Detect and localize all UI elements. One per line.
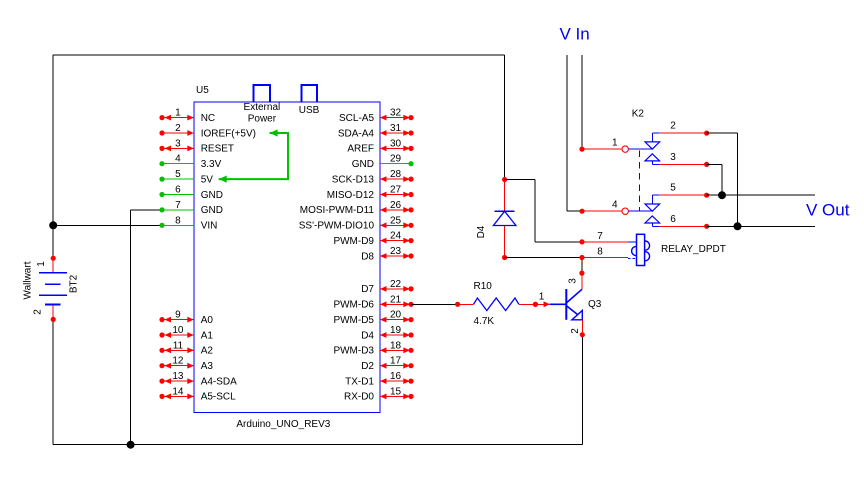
svg-text:K2: K2	[632, 109, 645, 120]
svg-text:16: 16	[390, 371, 402, 382]
node junction VIN/battery	[49, 221, 57, 229]
svg-text:3: 3	[670, 152, 676, 163]
wire relay pin 5 V Out upper rail	[707, 194, 815, 196]
svg-text:A1: A1	[201, 330, 214, 341]
U5 pin 18 PWM-D3	[380, 349, 411, 351]
svg-text:A3: A3	[201, 361, 214, 372]
svg-text:RESET: RESET	[201, 144, 234, 155]
U5 pin 17 D2	[380, 365, 411, 367]
U5 pin 30 AREF	[380, 147, 411, 149]
svg-text:1: 1	[612, 138, 618, 149]
wire diode top to relay coil pin 7	[505, 179, 535, 181]
svg-text:D4: D4	[361, 330, 374, 341]
svg-text:TX-D1: TX-D1	[345, 376, 374, 387]
svg-text:2: 2	[570, 328, 581, 334]
svg-text:3.3V: 3.3V	[201, 159, 222, 170]
svg-text:AREF: AREF	[347, 144, 374, 155]
svg-text:D8: D8	[361, 251, 374, 262]
svg-text:A5-SCL: A5-SCL	[201, 392, 236, 403]
svg-text:7: 7	[597, 231, 603, 242]
svg-text:A0: A0	[201, 315, 214, 326]
relay K2 mechanical link (dashed)	[638, 151, 640, 212]
U5 pin 15 RX-D0	[380, 395, 411, 397]
U5 pin 9 A0	[162, 319, 194, 321]
svg-text:14: 14	[172, 386, 184, 397]
U5 pin 12 A3	[162, 365, 194, 367]
resistor R10 4.7K	[455, 302, 460, 307]
svg-text:SDA-A4: SDA-A4	[338, 128, 375, 139]
svg-text:29: 29	[390, 154, 402, 165]
svg-text:BT2: BT2	[69, 274, 80, 293]
svg-text:4.7K: 4.7K	[474, 316, 495, 327]
node diode bottom junction	[502, 255, 507, 260]
wire GND pin7 down to bottom wire	[131, 209, 162, 211]
relay K2 coil	[640, 241, 649, 250]
U5 pin 29 GND	[380, 163, 411, 165]
svg-text:25: 25	[390, 215, 402, 226]
svg-text:External: External	[244, 102, 281, 113]
svg-text:1: 1	[175, 108, 181, 119]
U5 pin 23 D8	[380, 255, 411, 257]
U5 pin 5 5V	[162, 178, 194, 180]
svg-text:17: 17	[390, 356, 402, 367]
svg-text:4: 4	[612, 200, 618, 211]
svg-text:Wallwart: Wallwart	[23, 261, 34, 299]
U5 pin 2 IOREF(+5V)	[162, 132, 194, 134]
svg-text:VIN: VIN	[201, 221, 218, 232]
U5 pin 28 SCK-D13	[380, 178, 411, 180]
svg-text:SCK-D13: SCK-D13	[332, 174, 375, 185]
wire battery bottom to bottom-left corner	[52, 319, 54, 444]
wire V In left (to relay pin 4)	[566, 55, 568, 211]
svg-text:7: 7	[175, 200, 181, 211]
svg-text:Power: Power	[248, 114, 277, 125]
svg-text:19: 19	[390, 325, 402, 336]
svg-text:26: 26	[390, 200, 402, 211]
wire relay pin 2 to V Out lower rail	[707, 132, 738, 134]
svg-text:2: 2	[670, 121, 676, 132]
Q3 pin 1 base stub	[533, 302, 538, 307]
svg-text:23: 23	[390, 246, 402, 257]
U5 pin 1 NC	[162, 117, 194, 119]
svg-text:4: 4	[175, 154, 181, 165]
svg-text:V Out: V Out	[806, 201, 850, 220]
svg-text:RX-D0: RX-D0	[344, 392, 374, 403]
node junction pin2 wire / pin6 rail	[734, 222, 742, 230]
U5 pin 11 A2	[162, 349, 194, 351]
U5 pin 3 RESET	[162, 147, 194, 149]
svg-text:GND: GND	[201, 205, 223, 216]
svg-text:RELAY_DPDT: RELAY_DPDT	[661, 244, 726, 255]
svg-text:MOSI-PWM-D11: MOSI-PWM-D11	[300, 205, 375, 216]
wire emitter vertical up from bottom wire	[581, 335, 583, 445]
svg-text:GND: GND	[352, 159, 374, 170]
svg-text:10: 10	[172, 325, 184, 336]
U5 pin 31 SDA-A4	[380, 132, 411, 134]
wire coil pin8 node down to Q3 collector	[581, 258, 583, 274]
wire top-right vertical down to diode D4	[504, 55, 506, 179]
svg-text:5: 5	[175, 169, 181, 180]
svg-text:1: 1	[36, 261, 47, 267]
Q3 pin 3 collector stub	[581, 273, 583, 289]
svg-text:D7: D7	[361, 284, 374, 295]
U5 pin 6 GND	[162, 194, 194, 196]
svg-text:11: 11	[173, 340, 184, 351]
relay K2 pole 2 arm	[628, 210, 652, 212]
wire U5 pin 21 PWM-D6 to R10	[411, 303, 458, 305]
wire bottom horizontal	[53, 444, 582, 446]
wire top horizontal	[53, 54, 504, 56]
svg-text:27: 27	[390, 185, 402, 196]
svg-text:2: 2	[175, 123, 181, 134]
svg-text:30: 30	[390, 138, 402, 149]
svg-text:PWM-D3: PWM-D3	[333, 346, 374, 357]
svg-text:MISO-D12: MISO-D12	[327, 190, 375, 201]
U5 pin 16 TX-D1	[380, 380, 411, 382]
svg-text:NC: NC	[201, 113, 215, 124]
svg-text:8: 8	[597, 247, 603, 258]
U5 pin 10 A1	[162, 334, 194, 336]
svg-text:A2: A2	[201, 346, 214, 357]
wire relay pin 3 to V Out upper rail	[707, 163, 722, 165]
svg-text:31: 31	[390, 123, 402, 134]
svg-text:Q3: Q3	[588, 299, 602, 310]
wire left vertical (battery top to top-left corner)	[52, 55, 54, 258]
relay K2 contact to pin 5	[645, 204, 660, 211]
svg-text:28: 28	[390, 169, 402, 180]
svg-text:U5: U5	[196, 85, 209, 96]
transistor Q3	[565, 289, 567, 320]
svg-text:20: 20	[390, 310, 402, 321]
svg-text:18: 18	[390, 340, 402, 351]
svg-text:Arduino_UNO_REV3: Arduino_UNO_REV3	[236, 419, 330, 430]
battery BT2 (Wallwart)	[52, 258, 54, 272]
svg-text:8: 8	[175, 215, 181, 226]
svg-text:1: 1	[539, 292, 545, 303]
wire green IOREF(+5V) to 5V inside U5	[219, 133, 288, 179]
relay K2 pin 5 stub	[659, 194, 707, 196]
svg-text:D4: D4	[476, 225, 487, 238]
svg-text:3: 3	[568, 278, 579, 284]
svg-text:V In: V In	[560, 24, 590, 43]
relay K2 contact to pin 3	[645, 154, 660, 161]
wire diode bottom to relay coil pin 8	[505, 257, 582, 259]
op-amp U5 Arduino_UNO_REV3 body	[194, 102, 380, 412]
U5 pin 8 VIN	[162, 224, 194, 226]
node junction pin3 wire / pin5 rail	[718, 191, 726, 199]
svg-text:9: 9	[175, 310, 181, 321]
svg-text:6: 6	[175, 185, 181, 196]
svg-text:5: 5	[670, 183, 676, 194]
svg-text:USB: USB	[299, 105, 320, 116]
svg-text:3: 3	[175, 138, 181, 149]
relay K2 pin 1 (pole 1)	[579, 147, 584, 152]
relay K2 pin 4 (pole 2)	[579, 209, 584, 214]
svg-text:IOREF(+5V): IOREF(+5V)	[201, 128, 256, 139]
svg-text:PWM-D6: PWM-D6	[333, 300, 374, 311]
svg-text:R10: R10	[474, 281, 493, 292]
svg-text:32: 32	[390, 108, 402, 119]
U5 pin 4 3.3V	[162, 163, 194, 165]
relay K2 pin 6 stub	[659, 225, 707, 227]
svg-text:15: 15	[390, 386, 402, 397]
svg-text:A4-SDA: A4-SDA	[201, 376, 237, 387]
relay K2 pin 7 stub	[579, 239, 584, 244]
svg-text:13: 13	[172, 371, 184, 382]
svg-text:12: 12	[172, 356, 184, 367]
relay K2 pin 8 stub	[579, 255, 584, 260]
U5 pin 7 GND	[162, 209, 194, 211]
U5 pin 20 PWM-D5	[380, 319, 411, 321]
svg-text:SCL-A5: SCL-A5	[339, 113, 374, 124]
relay K2 contact to pin 6	[645, 216, 660, 223]
U5 pin 19 D4	[380, 334, 411, 336]
svg-text:6: 6	[670, 214, 676, 225]
Q3 pin 2 emitter stub	[581, 320, 583, 335]
svg-text:PWM-D5: PWM-D5	[333, 315, 374, 326]
relay K2 pin 3 stub	[659, 163, 707, 165]
wire VIN to battery net	[53, 224, 162, 226]
U5 pin 25 SS'-PWM-DIO10	[380, 224, 411, 226]
svg-text:D2: D2	[361, 361, 374, 372]
U5 External Power connector tab	[254, 85, 270, 102]
wire V In right (to relay pin 1)	[581, 55, 583, 149]
svg-text:24: 24	[390, 231, 402, 242]
node diode top junction	[502, 177, 507, 182]
svg-text:5V: 5V	[201, 174, 214, 185]
U5 pin 26 MOSI-PWM-D11	[380, 209, 411, 211]
U5 pin 21 PWM-D6	[380, 303, 411, 305]
node junction GND/bottom wire	[127, 441, 135, 449]
U5 USB connector tab	[302, 85, 318, 102]
relay K2 pin 2 stub	[659, 132, 707, 134]
svg-text:SS'-PWM-DIO10: SS'-PWM-DIO10	[299, 221, 375, 232]
svg-text:21: 21	[390, 294, 402, 305]
svg-text:22: 22	[390, 279, 402, 290]
U5 pin 27 MISO-D12	[380, 194, 411, 196]
wire relay pin 6 V Out lower rail	[707, 225, 815, 227]
relay K2 pole 1 arm	[628, 148, 652, 150]
U5 pin 22 D7	[380, 288, 411, 290]
U5 pin 13 A4-SDA	[162, 380, 194, 382]
diode D4	[504, 180, 506, 212]
relay K2 contact to pin 2	[645, 142, 660, 149]
U5 pin 24 PWM-D9	[380, 240, 411, 242]
svg-text:2: 2	[33, 309, 44, 315]
U5 pin 14 A5-SCL	[162, 395, 194, 397]
svg-text:GND: GND	[201, 190, 223, 201]
U5 pin 32 SCL-A5	[380, 117, 411, 119]
svg-text:PWM-D9: PWM-D9	[333, 236, 374, 247]
